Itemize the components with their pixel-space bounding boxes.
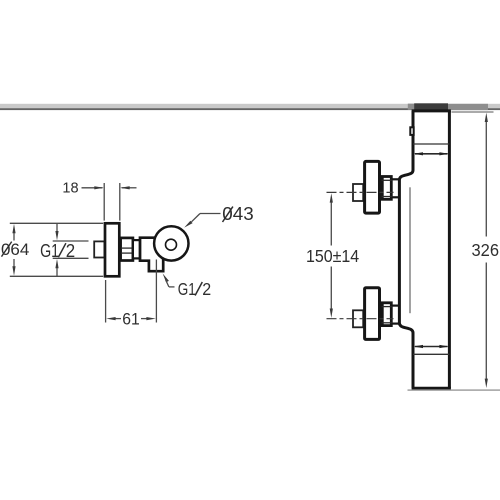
body right edge (448, 111, 451, 388)
svg-text:G1: G1 (40, 241, 59, 261)
dimension G1/2 extension lines (53, 240, 89, 242)
top inlet tail (353, 184, 363, 201)
body top edge (412, 109, 451, 112)
wall shadow right (447, 104, 488, 110)
dimension 61 extension lines (105, 280, 107, 323)
connector cylinder (133, 240, 140, 258)
body arrow line bottom (415, 346, 448, 348)
O43 leader (184, 221, 192, 228)
svg-text:61: 61 (122, 311, 140, 329)
326 top extension line (452, 111, 494, 113)
union nut (121, 238, 133, 261)
svg-text:064: 064 (1, 240, 29, 259)
top nut (side) (382, 177, 391, 200)
body inner line top (413, 143, 449, 145)
bottom inlet tail (353, 310, 363, 327)
wall band (0, 104, 500, 110)
dimension 18 extension lines (103, 183, 105, 221)
svg-text:2: 2 (66, 241, 75, 261)
body left profile (399, 111, 413, 388)
body inner line bottom (413, 353, 449, 355)
G1/2 outlet leader (163, 273, 169, 282)
cartridge inner circle (166, 239, 177, 250)
top cylinder edges (392, 178, 399, 180)
nut hex flat lines (121, 247, 132, 249)
valve body circle (O43) (154, 226, 188, 260)
dimension 18 arrows (82, 187, 103, 189)
svg-text:043: 043 (222, 203, 253, 224)
svg-text:2: 2 (202, 279, 211, 299)
svg-text:326: 326 (472, 240, 500, 260)
valve block and outlet fitting outline (140, 238, 163, 272)
bottom nut (side) (382, 303, 391, 326)
dimension O64 extension lines (10, 222, 103, 224)
body hidden edge line (409, 187, 411, 313)
61 dimension line and arrows (115, 318, 121, 320)
G1/2 arrows (outside) (56, 223, 58, 232)
mixer top mount dark bar (414, 103, 448, 109)
svg-text:G1: G1 (178, 279, 196, 299)
floor shadow line (408, 389, 500, 390)
svg-text:18: 18 (62, 181, 78, 197)
bottom cylinder edges (392, 305, 399, 307)
O64 arrows (13, 232, 15, 241)
wall shadow left of bar (408, 104, 415, 110)
326 dimension line and arrows (485, 121, 487, 237)
body arrow line top (415, 153, 448, 155)
bottom inlet centerline (327, 318, 394, 320)
inlet tail (behind flange) (94, 241, 104, 257)
wall flange (105, 223, 119, 276)
top flange (side) (365, 161, 380, 213)
bottom flange (side) (365, 288, 380, 340)
left notch (410, 127, 413, 135)
body bottom edge (412, 387, 451, 390)
150+-14 dimension line and arrows (330, 201, 332, 246)
top inlet centerline (327, 191, 394, 193)
svg-text:150±14: 150±14 (306, 246, 359, 266)
